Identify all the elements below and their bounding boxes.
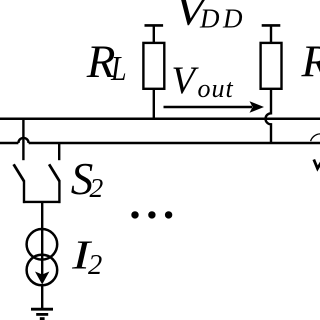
- V_out arrow: [164, 106, 253, 108]
- svg-text:DD: DD: [199, 3, 246, 33]
- wire (upper bus to switch A): [22, 119, 24, 160]
- upper output bus wire: [0, 118, 320, 121]
- ellipsis dots: [131, 211, 172, 218]
- current source I2: [27, 229, 58, 260]
- lower bus jump over S2 wire: [18, 138, 28, 143]
- ground: [31, 309, 53, 318]
- wire: [153, 89, 155, 120]
- wire: [153, 25, 155, 43]
- wire (lower bus to switch B): [58, 143, 60, 160]
- switch blade (right, cut at edge): [314, 160, 320, 169]
- switch S2 contact B blade: [49, 164, 59, 181]
- svg-text:2: 2: [88, 250, 102, 281]
- wire: [58, 181, 60, 204]
- resistor R_L (right): [261, 43, 282, 89]
- power rail VDD tick (right): [262, 24, 281, 27]
- wire (to current source): [41, 202, 43, 230]
- svg-text:R: R: [301, 36, 320, 87]
- power rail VDD tick (left): [145, 24, 164, 27]
- svg-text:out: out: [198, 74, 234, 103]
- wire (current source to ground): [41, 285, 43, 309]
- lower bus jump at right edge (cut): [311, 134, 320, 141]
- wire (switch bottoms join): [23, 201, 60, 203]
- lower output bus wire: [0, 142, 320, 145]
- svg-text:2: 2: [90, 172, 104, 203]
- wire: [23, 181, 25, 204]
- svg-text:L: L: [110, 49, 126, 88]
- resistor R_L (left): [143, 43, 164, 89]
- switch S2 contact A blade: [14, 164, 24, 181]
- wire jump over upper bus: [266, 89, 272, 143]
- wire: [270, 25, 272, 43]
